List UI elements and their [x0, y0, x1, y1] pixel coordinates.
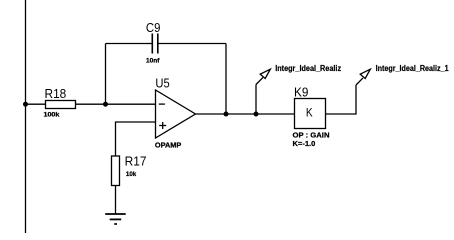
ground: [105, 214, 126, 224]
svg-text:K: K: [306, 105, 313, 119]
op-amp U5 triangle: [156, 90, 196, 138]
capacitor C9: [152, 34, 158, 54]
node junction feedback tap: [103, 102, 108, 107]
wire feedback top left segment: [106, 43, 153, 45]
node junction at bus and R18 wire: [23, 102, 28, 107]
wire diagonal to arrow 1: [256, 77, 263, 84]
svg-text:U5: U5: [155, 75, 169, 90]
wire feedback down to output: [225, 44, 227, 115]
svg-text:R17: R17: [125, 153, 147, 168]
resistor R17: [112, 156, 120, 186]
op-amp plus sign: [159, 125, 166, 127]
wire output tap up: [255, 85, 257, 115]
wire R17 to ground: [115, 186, 117, 215]
svg-text:10k: 10k: [126, 171, 137, 178]
wire feedback top right segment: [158, 43, 226, 45]
svg-text:OPAMP: OPAMP: [155, 143, 182, 150]
op-amp minus sign: [159, 103, 165, 105]
resistor R18: [46, 101, 76, 109]
node junction output tap: [254, 112, 259, 117]
wire opamp output to K9: [196, 113, 295, 115]
svg-text:Integr_Ideal_Realiz_1: Integr_Ideal_Realiz_1: [376, 64, 449, 73]
svg-text:10nf: 10nf: [146, 58, 160, 65]
wire noninverting input to R17: [116, 122, 156, 156]
svg-text:R18: R18: [45, 86, 67, 101]
wire K9 output: [326, 85, 357, 114]
node junction feedback at output: [224, 112, 229, 117]
svg-text:C9: C9: [146, 20, 161, 35]
svg-text:Integr_Ideal_Realiz: Integr_Ideal_Realiz: [275, 64, 341, 73]
node arrow Integr_Ideal_Realiz_1: [360, 69, 370, 78]
svg-text:100k: 100k: [44, 112, 60, 119]
wire feedback up: [105, 44, 107, 105]
wire R18 to opamp inverting input: [76, 103, 156, 105]
node arrow Integr_Ideal_Realiz: [260, 69, 270, 78]
wire bus to R18: [26, 103, 46, 105]
svg-text:OP : GAIN: OP : GAIN: [293, 130, 330, 139]
wire vertical bus left: [25, 0, 27, 233]
gain block K9: [295, 99, 326, 129]
svg-text:K9: K9: [294, 85, 308, 100]
svg-text:K=-1.0: K=-1.0: [293, 139, 316, 148]
wire diagonal to arrow 2: [356, 78, 363, 85]
